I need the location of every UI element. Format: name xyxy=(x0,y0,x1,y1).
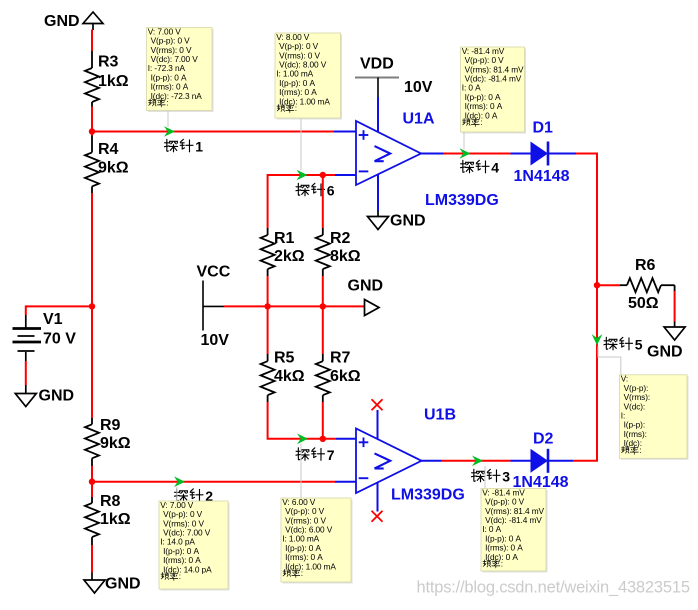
node junction probe1 xyxy=(89,128,95,134)
svg-text:GND: GND xyxy=(44,13,80,30)
node junction probe2 xyxy=(89,479,95,485)
wire D1 to right rail xyxy=(576,153,598,155)
wire probe1 info connector xyxy=(167,111,169,128)
resistor R3 1kΩ xyxy=(85,51,129,107)
wire R3 to node xyxy=(91,107,93,132)
wire U1B output xyxy=(442,460,511,462)
wire right vertical rail xyxy=(596,153,598,461)
probe label 探针3 xyxy=(471,469,510,485)
wire VCC to node xyxy=(224,305,268,307)
ground GND right xyxy=(647,322,685,361)
wire R6 to ground xyxy=(674,291,676,322)
svg-text:6kΩ: 6kΩ xyxy=(330,368,361,385)
wire V1 to ground xyxy=(25,361,27,385)
wire U1A output xyxy=(444,153,511,155)
svg-text:U1A: U1A xyxy=(403,111,435,128)
probe label 探针2 xyxy=(174,488,213,504)
watermark xyxy=(417,579,691,597)
node junction R2/R7 xyxy=(320,303,326,309)
wire V1 node to R9 xyxy=(91,306,93,418)
svg-text:R6: R6 xyxy=(635,257,656,274)
svg-text:1kΩ: 1kΩ xyxy=(100,511,131,528)
probe 探针2 arrow xyxy=(174,476,185,487)
resistor R9 9kΩ xyxy=(85,417,131,466)
node junction VCC/R1/R5 xyxy=(264,303,270,309)
svg-text:I(dc): -72.3 nA: I(dc): -72.3 nA xyxy=(151,91,203,101)
node junction probe7 xyxy=(320,436,326,442)
svg-text:4kΩ: 4kΩ xyxy=(274,368,305,385)
svg-text::: : xyxy=(480,117,482,127)
ground GND below V1 xyxy=(15,385,74,407)
label U1B xyxy=(424,407,456,424)
probe 探针6 arrow xyxy=(297,170,308,181)
svg-text:VCC: VCC xyxy=(197,264,231,281)
wire rail to R6 xyxy=(597,284,620,286)
svg-text:70 V: 70 V xyxy=(43,331,76,348)
svg-text:50Ω: 50Ω xyxy=(628,295,659,312)
wire R7 bottom xyxy=(322,402,324,439)
probe label 探针7 xyxy=(296,447,335,463)
wire R2 top xyxy=(322,175,324,228)
probe info box probe6 xyxy=(275,32,342,120)
wire probe4 info connector xyxy=(463,132,465,149)
probe info box probe1 xyxy=(147,26,214,112)
svg-text:D1: D1 xyxy=(533,120,554,137)
svg-text::: : xyxy=(179,571,181,581)
svg-text:4: 4 xyxy=(491,160,499,176)
svg-text:VDD: VDD xyxy=(360,56,394,73)
svg-text:1N4148: 1N4148 xyxy=(514,168,570,185)
svg-text:R4: R4 xyxy=(98,141,119,158)
svg-text:I(dc): 1.00 mA: I(dc): 1.00 mA xyxy=(279,96,330,106)
wire D2 to right rail xyxy=(573,460,598,462)
svg-text:R1: R1 xyxy=(274,230,295,247)
svg-text:1kΩ: 1kΩ xyxy=(98,73,129,90)
svg-text:GND: GND xyxy=(105,576,141,593)
ground GND below U1A xyxy=(368,211,426,230)
probe info box probe3 xyxy=(481,487,548,572)
probe 探针5 arrow (down) xyxy=(592,334,603,345)
diode D2 1N4148 xyxy=(511,431,574,492)
svg-text:I(dc): 1.00 mA: I(dc): 1.00 mA xyxy=(285,561,336,571)
svg-text::: : xyxy=(301,568,303,578)
wire bottom rail to U1B - input xyxy=(92,481,335,483)
probe label 探针1 xyxy=(164,139,203,155)
svg-text:8kΩ: 8kΩ xyxy=(330,248,361,265)
probe 探针3 arrow xyxy=(472,456,483,467)
svg-text:R2: R2 xyxy=(330,230,351,247)
svg-text:6: 6 xyxy=(327,183,335,199)
svg-text:D2: D2 xyxy=(533,431,554,448)
wire probe2 info connector xyxy=(176,487,178,502)
svg-text:R3: R3 xyxy=(98,54,119,71)
ground GND top-left xyxy=(44,12,103,30)
svg-text:R9: R9 xyxy=(100,417,121,434)
svg-text:10V: 10V xyxy=(404,79,433,96)
ground GND bottom-left xyxy=(84,573,141,594)
power VCC 10V xyxy=(197,264,231,350)
battery V1 70V xyxy=(13,311,77,361)
resistor R6 50Ω xyxy=(620,257,675,312)
resistor R1 2kΩ xyxy=(261,228,305,276)
node junction R6 xyxy=(594,282,600,288)
svg-text:V(dc):: V(dc): xyxy=(624,401,646,411)
svg-text:GND: GND xyxy=(39,388,75,405)
wire R1 bottom xyxy=(267,276,269,306)
svg-text::: : xyxy=(295,103,297,113)
power VDD 10V xyxy=(355,56,433,98)
wire GND to R3 xyxy=(91,30,93,52)
svg-text:LM339DG: LM339DG xyxy=(391,487,465,504)
label LM339DG (U1A) xyxy=(425,192,499,209)
svg-text::: : xyxy=(166,98,168,108)
probe info box probe7 xyxy=(281,497,353,584)
probe label 探针4 xyxy=(460,160,499,176)
svg-text:9kΩ: 9kΩ xyxy=(98,160,129,177)
no-connect X on U1B VDD pin xyxy=(372,399,383,410)
wire R8 to ground xyxy=(91,545,93,573)
wire R9 to node xyxy=(91,466,93,482)
svg-text::: : xyxy=(501,559,503,569)
svg-text:GND: GND xyxy=(348,278,384,295)
svg-text:GND: GND xyxy=(647,344,683,361)
wire R4 to V1 node xyxy=(91,193,93,306)
probe label 探针5 xyxy=(604,337,643,353)
svg-text:9kΩ: 9kΩ xyxy=(100,435,131,452)
wire top rail to U1A + input xyxy=(92,131,339,133)
svg-text:R5: R5 xyxy=(274,350,295,367)
svg-text:1: 1 xyxy=(195,139,203,155)
probe info box probe4 xyxy=(461,46,527,134)
resistor R5 4kΩ xyxy=(261,306,305,402)
resistor R8 1kΩ xyxy=(85,482,131,545)
probe label 探针6 xyxy=(296,183,335,199)
probe 探针7 arrow xyxy=(297,434,308,445)
resistor R4 9kΩ xyxy=(85,132,129,194)
svg-text:R7: R7 xyxy=(330,350,351,367)
node junction probe6 xyxy=(320,172,326,178)
node junction V1 xyxy=(89,303,95,309)
probe 探针1 arrow xyxy=(164,126,175,137)
wire probe6 info connector xyxy=(300,118,302,170)
op-amp U1A LM339DG xyxy=(334,97,444,211)
svg-text:3: 3 xyxy=(502,469,510,485)
resistor R7 6kΩ xyxy=(316,306,361,402)
wire probe7 info connector xyxy=(300,444,302,499)
probe 探针4 arrow xyxy=(460,148,471,159)
svg-text:LM339DG: LM339DG xyxy=(425,192,499,209)
op-amp U1B LM339DG xyxy=(335,410,442,512)
svg-text:2kΩ: 2kΩ xyxy=(274,248,305,265)
no-connect X on U1B GND pin xyxy=(372,511,383,522)
wire U1A - rail with corner to R1 xyxy=(268,175,335,228)
label LM339DG (U1B) xyxy=(391,487,465,504)
svg-text:U1B: U1B xyxy=(424,407,456,424)
ground GND middle (right-pointing) xyxy=(348,278,384,316)
svg-text:V1: V1 xyxy=(43,311,63,328)
svg-text:I(dc): 14.0 pA: I(dc): 14.0 pA xyxy=(163,564,212,574)
wire middle rail to ground arrow xyxy=(323,305,365,307)
wire middle rail R1node to R2node xyxy=(268,305,323,307)
svg-text:GND: GND xyxy=(390,213,426,230)
svg-text:https://blog.csdn.net/weixin_4: https://blog.csdn.net/weixin_43823515 xyxy=(417,579,691,597)
probe info box probe2 xyxy=(159,500,230,591)
resistor R2 8kΩ xyxy=(316,228,361,276)
wire R2 bottom xyxy=(322,276,324,306)
wire probe5 info connector xyxy=(598,346,621,375)
wire R5 bottom corner to U1B + rail xyxy=(268,402,336,439)
probe info box probe5 xyxy=(620,374,689,460)
svg-text::: : xyxy=(639,445,641,455)
diode D1 1N4148 xyxy=(511,120,577,186)
svg-text:5: 5 xyxy=(635,337,643,353)
svg-text:10V: 10V xyxy=(201,332,230,349)
svg-text:7: 7 xyxy=(327,447,335,463)
wire V1 rail xyxy=(26,305,92,307)
label U1A xyxy=(403,111,435,128)
svg-text:R8: R8 xyxy=(100,493,121,510)
wire probe3 info connector xyxy=(484,466,486,489)
